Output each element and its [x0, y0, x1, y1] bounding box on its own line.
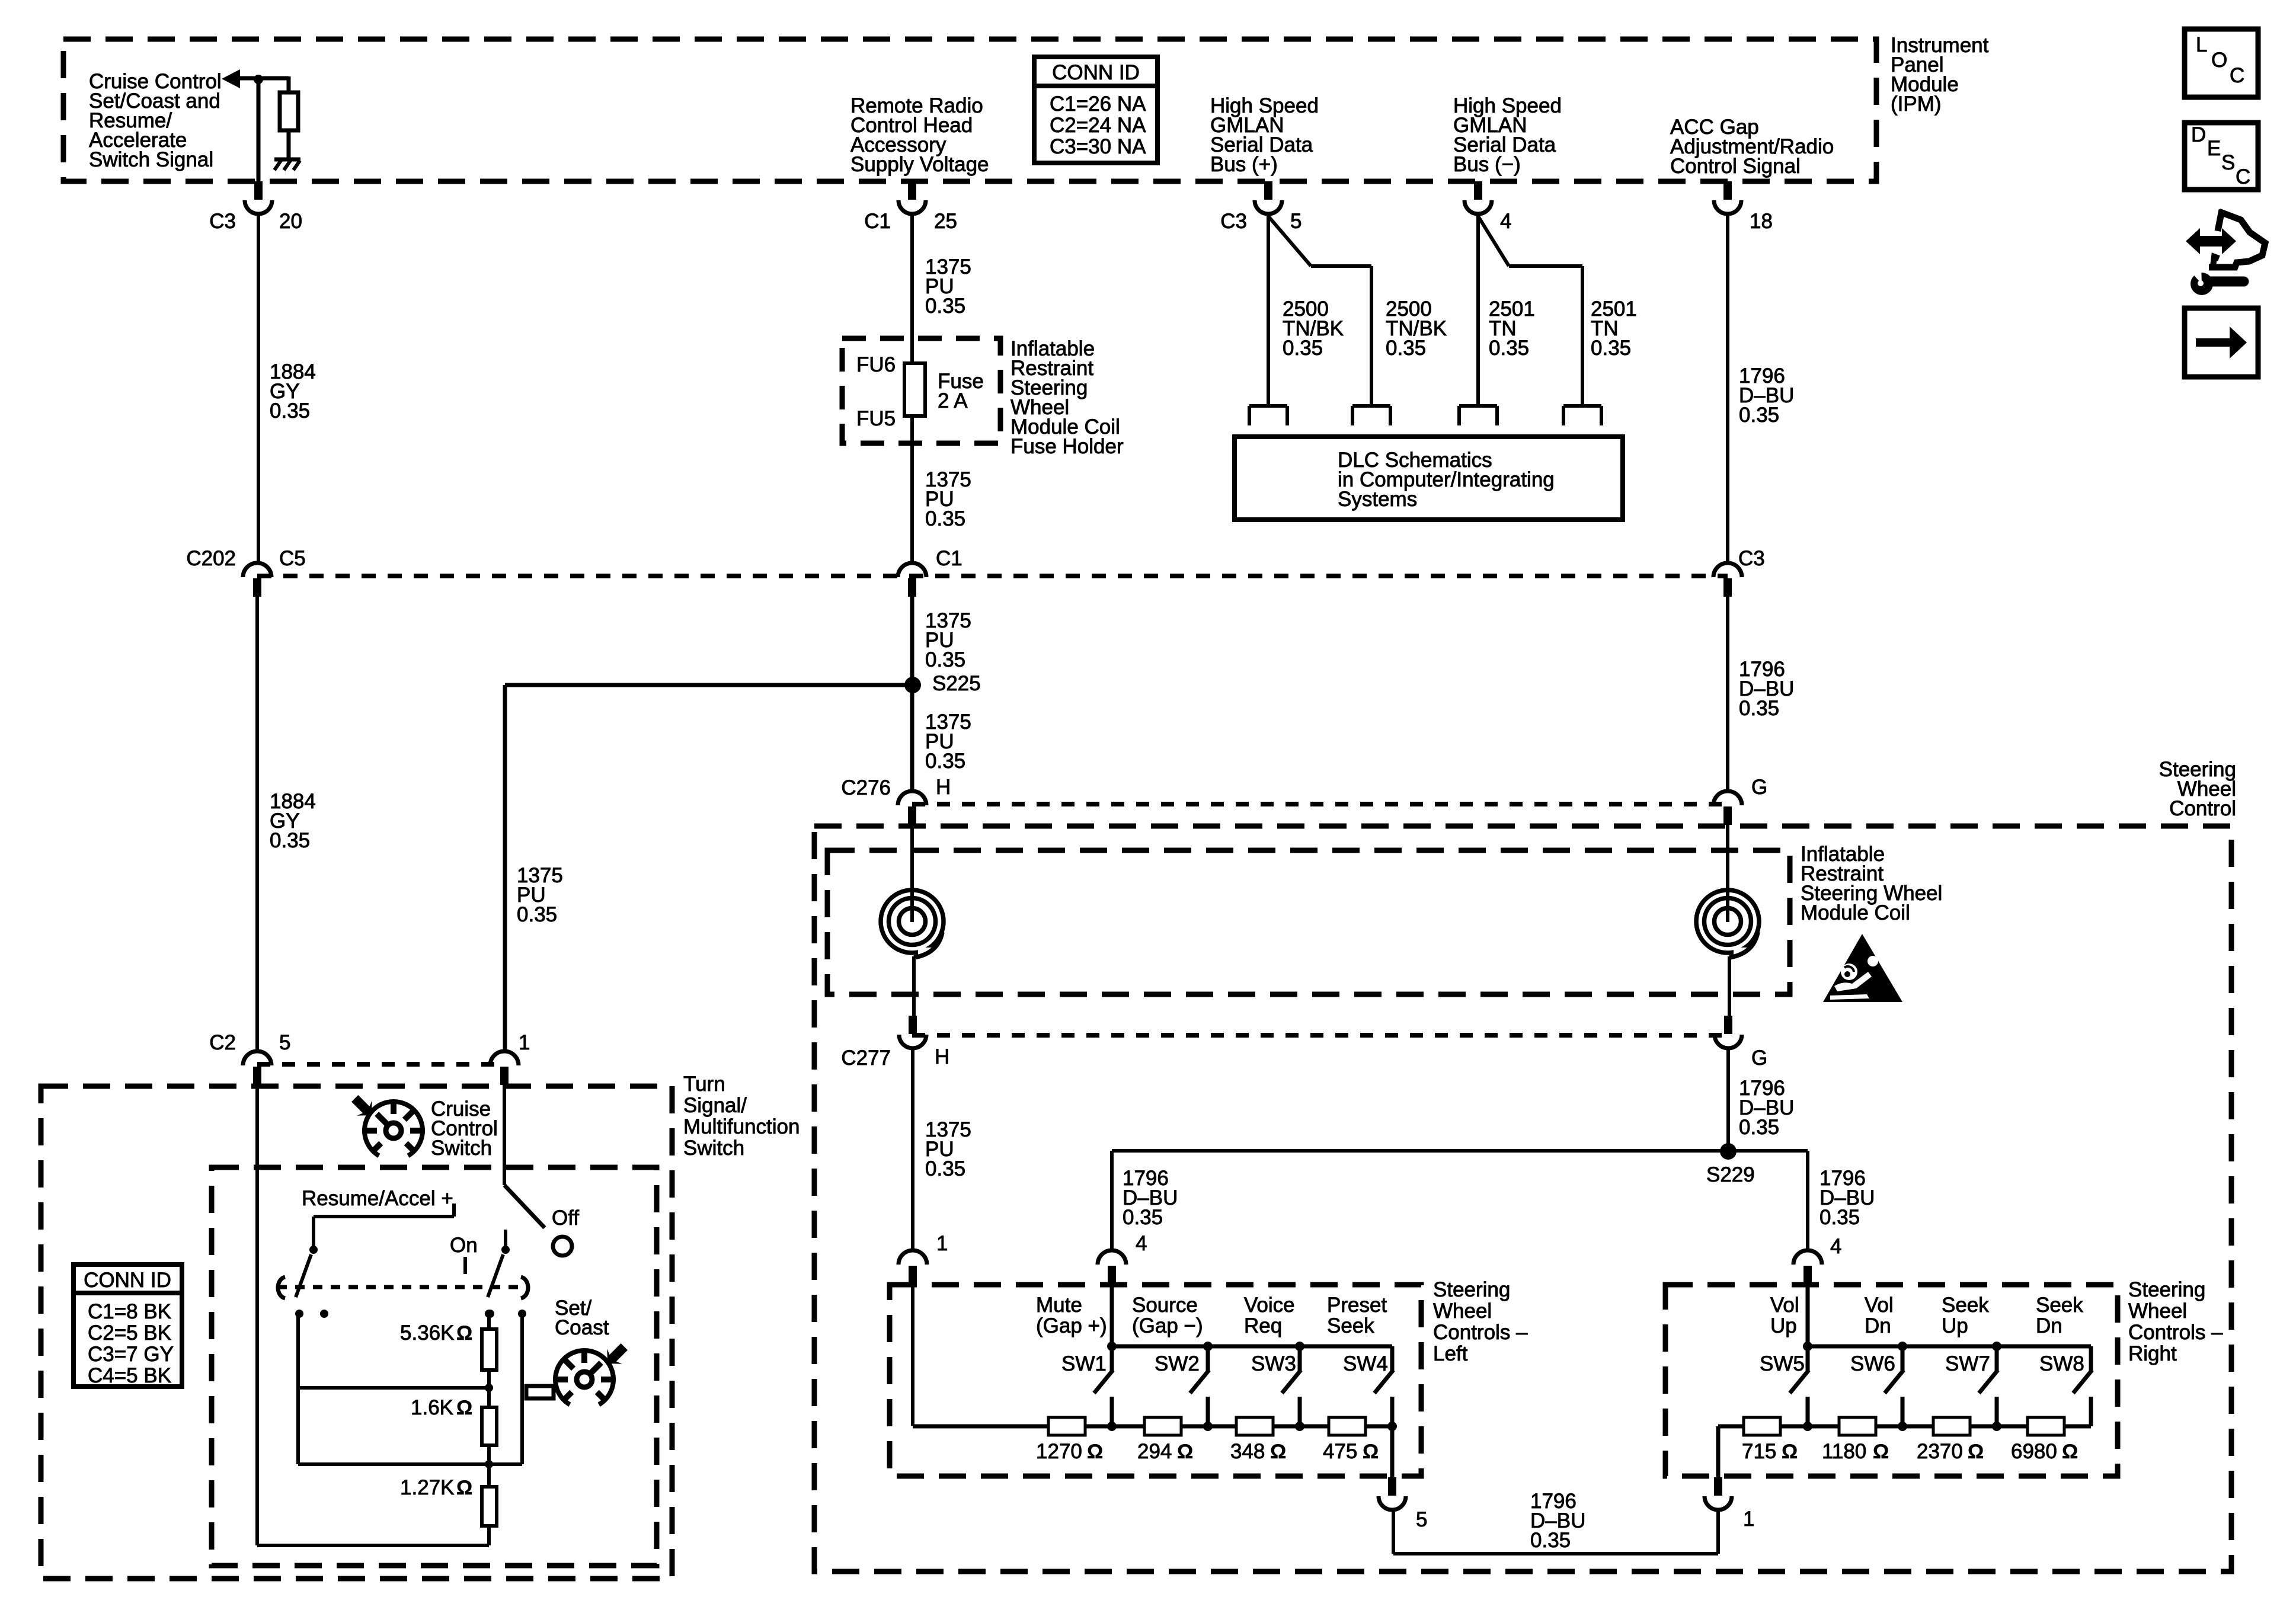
wire 1796 D-BU bottom left segment: [1392, 1509, 1395, 1554]
svg-text:C277: C277: [841, 1046, 891, 1070]
svg-text:Control Signal: Control Signal: [1670, 155, 1801, 178]
wire 1375 PU coil exit to C277: [912, 956, 916, 1016]
svg-text:Wheel: Wheel: [2128, 1299, 2187, 1323]
resistor 475 ohm: [1329, 1417, 1366, 1435]
svg-text:Seek: Seek: [2036, 1294, 2083, 1317]
resistor chain wire left box: [913, 1425, 1392, 1429]
wire 1884 GY into multifunction switch: [255, 1085, 259, 1545]
svg-text:C3: C3: [209, 210, 236, 233]
wire up to connector 1 right box: [1716, 1509, 1720, 1554]
svg-text:Controls –: Controls –: [2128, 1321, 2223, 1344]
Turn Signal/Multifunction Switch outer dashed box: [41, 1086, 672, 1579]
svg-text:C2: C2: [209, 1031, 236, 1054]
svg-text:1: 1: [1743, 1507, 1754, 1531]
svg-text:S: S: [2221, 151, 2235, 174]
svg-text:C5: C5: [279, 547, 306, 570]
svg-text:O: O: [2211, 49, 2227, 72]
svg-text:Voice: Voice: [1244, 1294, 1295, 1317]
svg-text:Turn: Turn: [683, 1073, 725, 1096]
connector C3 (module row right): [1713, 563, 1742, 577]
connector C1 pin 25: [908, 181, 916, 200]
svg-text:Up: Up: [1942, 1314, 1968, 1337]
wire to 1.27K resistor bottom: [257, 1544, 489, 1547]
svg-text:C1=26 NA: C1=26 NA: [1050, 92, 1146, 116]
resistor 294 ohm: [1144, 1417, 1181, 1435]
set/coast gauge icon: [555, 1350, 613, 1404]
On position tick: [463, 1257, 467, 1274]
wire 1796 D-BU coil to G lower: [1728, 956, 1731, 1016]
svg-text:0.35: 0.35: [925, 295, 965, 318]
svg-text:0.35: 0.35: [925, 507, 965, 530]
svg-text:S225: S225: [932, 672, 981, 695]
resistor 2370 ohm: [1933, 1417, 1970, 1435]
wire 1884 GY from C3-20 to C202: [257, 213, 260, 563]
svg-text:4: 4: [1500, 210, 1511, 233]
svg-text:2 A: 2 A: [938, 389, 968, 412]
switch SW7: [1995, 1346, 1999, 1371]
splice S229: [1720, 1143, 1737, 1160]
wire 1796 D-BU G to S229: [1726, 1048, 1730, 1151]
wire pin4 to bus (right box): [1806, 1283, 1810, 1346]
svg-text:Switch Signal: Switch Signal: [89, 148, 213, 171]
Steering Wheel Controls - Right dashed box: [1665, 1285, 2118, 1476]
fuse Fuse 2A element: [904, 363, 925, 416]
svg-text:0.35: 0.35: [1739, 1116, 1779, 1139]
wire 2500 fork diagonal: [1268, 216, 1311, 266]
mech link right hook: [521, 1277, 528, 1298]
svg-text:Steering: Steering: [1433, 1278, 1510, 1301]
wire down to pin 4 right: [1806, 1151, 1809, 1250]
svg-text:C3=30 NA: C3=30 NA: [1050, 135, 1146, 158]
resistor 348 ohm: [1236, 1417, 1273, 1435]
contact dot A1: [295, 1310, 303, 1318]
svg-text:Vol: Vol: [1865, 1294, 1894, 1317]
svg-text:0.35: 0.35: [1489, 337, 1529, 360]
svg-text:Ω: Ω: [1968, 1441, 1984, 1463]
svg-text:SW7: SW7: [1945, 1352, 1990, 1375]
signal arrow (points left): [222, 69, 240, 88]
svg-text:0.35: 0.35: [925, 1157, 965, 1180]
vehicle service icon (double arrow, outline, wrench): [2186, 228, 2236, 254]
wire down to pin 4 left: [1110, 1151, 1114, 1250]
connector G (C276 row): [1713, 791, 1742, 805]
svg-text:On: On: [450, 1234, 478, 1257]
switch SW2: [1206, 1346, 1210, 1371]
svg-text:0.35: 0.35: [1819, 1206, 1860, 1229]
svg-text:18: 18: [1750, 210, 1773, 233]
svg-text:SW4: SW4: [1343, 1352, 1388, 1375]
wire 2501 fork diagonal: [1478, 216, 1509, 266]
wire tap2 to 1.27K: [487, 1464, 491, 1487]
svg-text:5.36K: 5.36K: [400, 1321, 454, 1345]
wire 1.6K to tap2: [487, 1445, 491, 1464]
wire 1375 PU S225 to C276: [910, 685, 914, 791]
fuse holder FU6/FU5 dashed box: [842, 338, 1000, 443]
svg-text:0.35: 0.35: [1283, 337, 1323, 360]
wire first tap horizontal: [298, 1386, 489, 1390]
wire SW4 to connector 5: [1390, 1426, 1395, 1477]
LOC icon box: [2185, 29, 2258, 97]
svg-text:0.35: 0.35: [1530, 1529, 1571, 1552]
contact dot A2: [320, 1310, 328, 1318]
switch SW4: [1390, 1346, 1395, 1371]
resistor chain wire right box: [1718, 1425, 2091, 1429]
wire 1796 D-BU bottom horizontal: [1393, 1552, 1718, 1555]
svg-text:H: H: [935, 1045, 949, 1068]
svg-text:0.35: 0.35: [270, 829, 310, 852]
right SIR coil: [1696, 890, 1759, 953]
svg-text:294: 294: [1137, 1440, 1172, 1463]
On switch pivot dot: [501, 1246, 510, 1254]
svg-text:715: 715: [1742, 1440, 1776, 1463]
wire 2501 TN left vertical: [1476, 213, 1480, 406]
svg-text:SW3: SW3: [1251, 1352, 1296, 1375]
wire 2501 fork horizontal: [1509, 264, 1582, 268]
wire 2500 TN/BK left vertical: [1267, 213, 1270, 406]
resistor 1180 ohm: [1839, 1417, 1876, 1435]
svg-text:25: 25: [934, 210, 957, 233]
connector C2 pin 5: [243, 1051, 271, 1065]
svg-text:L: L: [2196, 33, 2207, 56]
svg-text:Switch: Switch: [431, 1137, 492, 1160]
terminal leg 3: [1459, 404, 1497, 408]
connector C202/C5: [243, 563, 271, 577]
svg-text:0.35: 0.35: [517, 903, 557, 926]
svg-text:5: 5: [1416, 1508, 1427, 1531]
svg-text:Ω: Ω: [1177, 1441, 1193, 1463]
svg-text:Up: Up: [1770, 1314, 1797, 1337]
svg-text:5: 5: [1290, 210, 1302, 233]
switch SW8: [2089, 1346, 2093, 1371]
Off contact circle: [553, 1237, 572, 1256]
svg-text:SW5: SW5: [1760, 1352, 1805, 1375]
wire S225 branch vertical to 1: [503, 685, 507, 1051]
wire chain to connector 1: [1716, 1426, 1721, 1478]
svg-text:4: 4: [1830, 1235, 1841, 1258]
forward arrow icon box: [2185, 308, 2258, 377]
C276 to G connector dashed line: [912, 802, 1728, 806]
wire 1375 PU fuse to C1: [910, 416, 914, 563]
svg-text:Fuse Holder: Fuse Holder: [1011, 435, 1124, 458]
svg-text:S229: S229: [1706, 1163, 1755, 1186]
svg-text:0.35: 0.35: [925, 750, 965, 773]
svg-text:1.27K: 1.27K: [400, 1476, 454, 1499]
connector C276 pin H: [898, 791, 926, 805]
svg-text:0.35: 0.35: [1123, 1206, 1163, 1229]
connector C277 pin H: [909, 1016, 917, 1034]
svg-text:Left: Left: [1433, 1342, 1468, 1365]
svg-text:Seek: Seek: [1327, 1314, 1374, 1337]
svg-text:1: 1: [936, 1232, 948, 1255]
connector pin 5 (SWC left out): [1388, 1477, 1396, 1496]
svg-text:1.6K: 1.6K: [411, 1396, 453, 1419]
CONN ID table (top): [1034, 57, 1157, 163]
svg-text:(Gap −): (Gap −): [1132, 1314, 1203, 1337]
svg-text:1: 1: [519, 1031, 530, 1054]
wire contact A1 down: [296, 1314, 300, 1464]
svg-text:CONN ID: CONN ID: [84, 1269, 171, 1292]
svg-text:Systems: Systems: [1338, 488, 1417, 511]
resistor 1.6K: [482, 1407, 497, 1445]
DLC Schematics box: [1235, 437, 1623, 520]
svg-text:Switch: Switch: [683, 1137, 744, 1160]
svg-text:Coast: Coast: [555, 1316, 609, 1339]
svg-text:D: D: [2191, 123, 2206, 146]
wire 1375 PU into coil box: [910, 825, 914, 922]
svg-text:Resume/Accel +: Resume/Accel +: [302, 1187, 453, 1210]
svg-text:Control: Control: [2169, 797, 2236, 820]
wire 1375 PU C1 to S225: [910, 597, 914, 685]
Resume switch blade: [296, 1254, 311, 1297]
switch SW1: [1110, 1346, 1114, 1371]
wire S229 to right branch: [1728, 1149, 1808, 1153]
resistor 5.36K: [482, 1329, 497, 1370]
svg-text:C: C: [2236, 165, 2250, 188]
wire resistor to ground: [287, 130, 291, 159]
junction dot tap1: [485, 1384, 493, 1392]
svg-text:Ω: Ω: [456, 1477, 472, 1499]
svg-text:Ω: Ω: [1270, 1441, 1286, 1463]
svg-text:Source: Source: [1132, 1294, 1198, 1317]
svg-text:Multifunction: Multifunction: [683, 1115, 800, 1138]
C277 to G connector dashed line: [912, 1033, 1728, 1038]
svg-text:Ω: Ω: [456, 1397, 472, 1419]
svg-text:SW6: SW6: [1850, 1352, 1895, 1375]
svg-text:C3=7 GY: C3=7 GY: [88, 1343, 174, 1366]
svg-text:C202: C202: [186, 547, 236, 570]
wire contact B2 down: [520, 1314, 524, 1464]
C2 to 1 connector dashed line: [257, 1062, 504, 1067]
svg-text:Preset: Preset: [1327, 1294, 1387, 1317]
Resume switch pivot dot: [309, 1246, 318, 1254]
contact dot B1: [486, 1310, 494, 1318]
wire 1884 GY from C202 to C2: [255, 597, 259, 1051]
connector C1 (module row): [898, 563, 926, 577]
svg-text:Mute: Mute: [1036, 1294, 1082, 1317]
svg-text:1180: 1180: [1822, 1440, 1866, 1463]
node junction dot at cruise signal: [254, 75, 263, 84]
wire B1.. 5.36K top: [487, 1314, 491, 1329]
chain junction dots left: [1107, 1422, 1117, 1431]
bus junction dots left: [1107, 1342, 1117, 1351]
Cruise Control Switch inner dashed box: [212, 1167, 657, 1566]
switch SW5: [1806, 1346, 1810, 1371]
bus wire right box: [1808, 1345, 2091, 1349]
Inflatable Restraint Steering Wheel Module Coil dashed box: [827, 850, 1790, 994]
svg-text:Dn: Dn: [2036, 1314, 2062, 1337]
Steering Wheel Controls - Left dashed box: [890, 1285, 1421, 1476]
wire 2500 fork horizontal: [1311, 264, 1371, 268]
wire second tap horizontal: [298, 1462, 522, 1466]
svg-text:SW1: SW1: [1061, 1352, 1107, 1375]
svg-text:5: 5: [279, 1031, 290, 1054]
main switch blade (to Off): [504, 1185, 545, 1228]
connector pin 1 (SWC right in): [1714, 1477, 1722, 1496]
svg-text:Ω: Ω: [1782, 1441, 1798, 1463]
bus wire left box: [1112, 1345, 1392, 1349]
contact to 5.36K dot: [485, 1310, 493, 1318]
svg-text:Right: Right: [2128, 1342, 2177, 1365]
svg-text:C2=5 BK: C2=5 BK: [88, 1321, 171, 1345]
connector pin 18: [1723, 181, 1732, 200]
svg-text:C3: C3: [1738, 547, 1765, 570]
left SIR coil: [881, 890, 944, 953]
svg-text:G: G: [1751, 776, 1767, 799]
ground (chassis): [274, 158, 300, 162]
bus junction dots right: [1803, 1342, 1812, 1351]
resistor 1270 ohm: [1048, 1417, 1085, 1435]
Resume/Accel wire: [314, 1215, 454, 1218]
svg-text:Off: Off: [552, 1206, 579, 1230]
svg-text:Controls –: Controls –: [1433, 1321, 1528, 1344]
svg-text:(IPM): (IPM): [1891, 92, 1942, 116]
switch SW3: [1298, 1346, 1302, 1371]
splice S225: [904, 677, 921, 693]
svg-text:0.35: 0.35: [270, 399, 310, 422]
contact dot B2: [518, 1310, 526, 1318]
svg-text:SW8: SW8: [2039, 1352, 2084, 1375]
junction dot tap2: [485, 1460, 493, 1468]
svg-text:Bus (+): Bus (+): [1210, 153, 1278, 176]
svg-text:0.35: 0.35: [1739, 697, 1779, 720]
wire 1375 PU C277 to connector 1: [911, 1048, 914, 1250]
svg-text:C: C: [2230, 64, 2244, 87]
On switch riser: [504, 1230, 507, 1250]
Resume switch riser: [312, 1217, 315, 1250]
module connector row dashed line C202/C1/C3: [257, 574, 1728, 578]
connector pin 4 (GMLAN-): [1474, 181, 1482, 200]
mechanical link dashed line: [277, 1285, 524, 1289]
svg-text:475: 475: [1323, 1440, 1357, 1463]
wire pin1 to resistor chain: [911, 1283, 914, 1426]
mech link left hook: [278, 1277, 285, 1298]
svg-text:Ω: Ω: [2062, 1441, 2078, 1463]
svg-text:C4=5 BK: C4=5 BK: [88, 1364, 171, 1387]
wire pin4 to bus (left box): [1110, 1283, 1114, 1346]
cruise control switch gauge icon: [364, 1102, 423, 1156]
terminal leg 1: [1249, 404, 1287, 408]
svg-text:CONN ID: CONN ID: [1052, 61, 1140, 84]
svg-text:C1: C1: [864, 210, 891, 233]
CONN ID table (bottom): [73, 1265, 182, 1387]
svg-text:Ω: Ω: [1873, 1441, 1889, 1463]
wire 1375 PU C1-25 to fuse: [910, 213, 914, 363]
svg-text:C1=8 BK: C1=8 BK: [88, 1300, 171, 1323]
svg-text:Seek: Seek: [1942, 1294, 1989, 1317]
switch SW6: [1901, 1346, 1905, 1371]
svg-text:E: E: [2207, 137, 2221, 160]
wire 2501 TN right vertical: [1581, 266, 1584, 406]
terminal leg 2: [1352, 404, 1390, 408]
svg-text:0.35: 0.35: [1386, 337, 1426, 360]
svg-text:Ω: Ω: [1363, 1441, 1379, 1463]
resistor 715 ohm: [1744, 1417, 1780, 1435]
svg-text:0.35: 0.35: [1739, 404, 1779, 427]
svg-text:0.35: 0.35: [925, 648, 965, 671]
svg-text:Wheel: Wheel: [1433, 1299, 1492, 1323]
connector C3 pin 5: [1264, 181, 1272, 200]
svg-text:348: 348: [1230, 1440, 1265, 1463]
svg-text:(Gap +): (Gap +): [1036, 1314, 1107, 1337]
wire 1796 D-BU into coil box: [1726, 825, 1729, 922]
set/coast lever rect: [526, 1386, 554, 1398]
connector pin 1 (SWC left): [898, 1250, 927, 1265]
wire to internal resistor: [287, 76, 291, 92]
On switch blade: [488, 1254, 503, 1297]
wire S225 branch horizontal: [505, 683, 912, 687]
svg-text:4: 4: [1136, 1232, 1147, 1255]
svg-text:H: H: [936, 776, 951, 799]
svg-text:1270: 1270: [1036, 1440, 1082, 1463]
svg-text:Ω: Ω: [456, 1322, 472, 1345]
svg-text:Req: Req: [1244, 1314, 1282, 1337]
resistor 6980 ohm: [2028, 1417, 2064, 1435]
svg-text:Vol: Vol: [1770, 1294, 1799, 1317]
wire 1796 D-BU 18 to C3: [1726, 213, 1729, 563]
svg-text:20: 20: [279, 210, 302, 233]
wire 1 into multifunction switch: [503, 1085, 506, 1185]
connector G (C277 row): [1724, 1016, 1732, 1034]
svg-text:C276: C276: [841, 776, 891, 799]
wire 2500 TN/BK right vertical: [1370, 266, 1373, 406]
resistor R-internal (IPM pull): [280, 92, 298, 130]
svg-text:SW2: SW2: [1155, 1352, 1200, 1375]
Steering Wheel Control outer dashed box: [814, 826, 2231, 1571]
svg-text:6980: 6980: [2011, 1440, 2057, 1463]
svg-text:0.35: 0.35: [1591, 337, 1631, 360]
wire S229 to left (to SWC-left pin 4): [1112, 1149, 1728, 1153]
DESC icon box: [2185, 123, 2258, 190]
wire 1796 D-BU C3 to G: [1726, 597, 1729, 791]
Instrument Panel Module (IPM) dashed box: [63, 39, 1876, 181]
chain junction dots right: [1803, 1422, 1812, 1431]
wire node to IPM edge: [257, 79, 261, 181]
terminal leg 4: [1563, 404, 1601, 408]
SIR warning triangle: [1823, 934, 1902, 1002]
connector pin 4 (SWC right): [1793, 1250, 1822, 1265]
svg-text:Ω: Ω: [1087, 1441, 1103, 1463]
wire junction to 1.6K: [487, 1388, 491, 1407]
svg-text:Supply Voltage: Supply Voltage: [850, 153, 989, 176]
connector 1 (multifunction): [490, 1051, 519, 1065]
svg-text:Steering: Steering: [2128, 1278, 2205, 1301]
svg-text:C2=24 NA: C2=24 NA: [1050, 114, 1146, 137]
svg-text:Signal/: Signal/: [683, 1094, 747, 1117]
svg-text:C3: C3: [1220, 210, 1247, 233]
svg-text:Dn: Dn: [1865, 1314, 1891, 1337]
svg-text:G: G: [1751, 1046, 1767, 1070]
svg-text:FU6: FU6: [856, 353, 896, 376]
connector C3 pin 20: [254, 181, 263, 200]
svg-text:Module Coil: Module Coil: [1801, 901, 1910, 924]
svg-text:FU5: FU5: [856, 407, 896, 430]
svg-text:C1: C1: [936, 547, 962, 570]
wire 5.36K to junction: [487, 1370, 491, 1388]
svg-text:Bus (−): Bus (−): [1453, 153, 1521, 176]
svg-text:2370: 2370: [1917, 1440, 1963, 1463]
wire 1.27K to bottom: [487, 1526, 491, 1545]
connector pin 4 (SWC left): [1098, 1250, 1126, 1265]
resistor 1.27K: [482, 1487, 497, 1526]
